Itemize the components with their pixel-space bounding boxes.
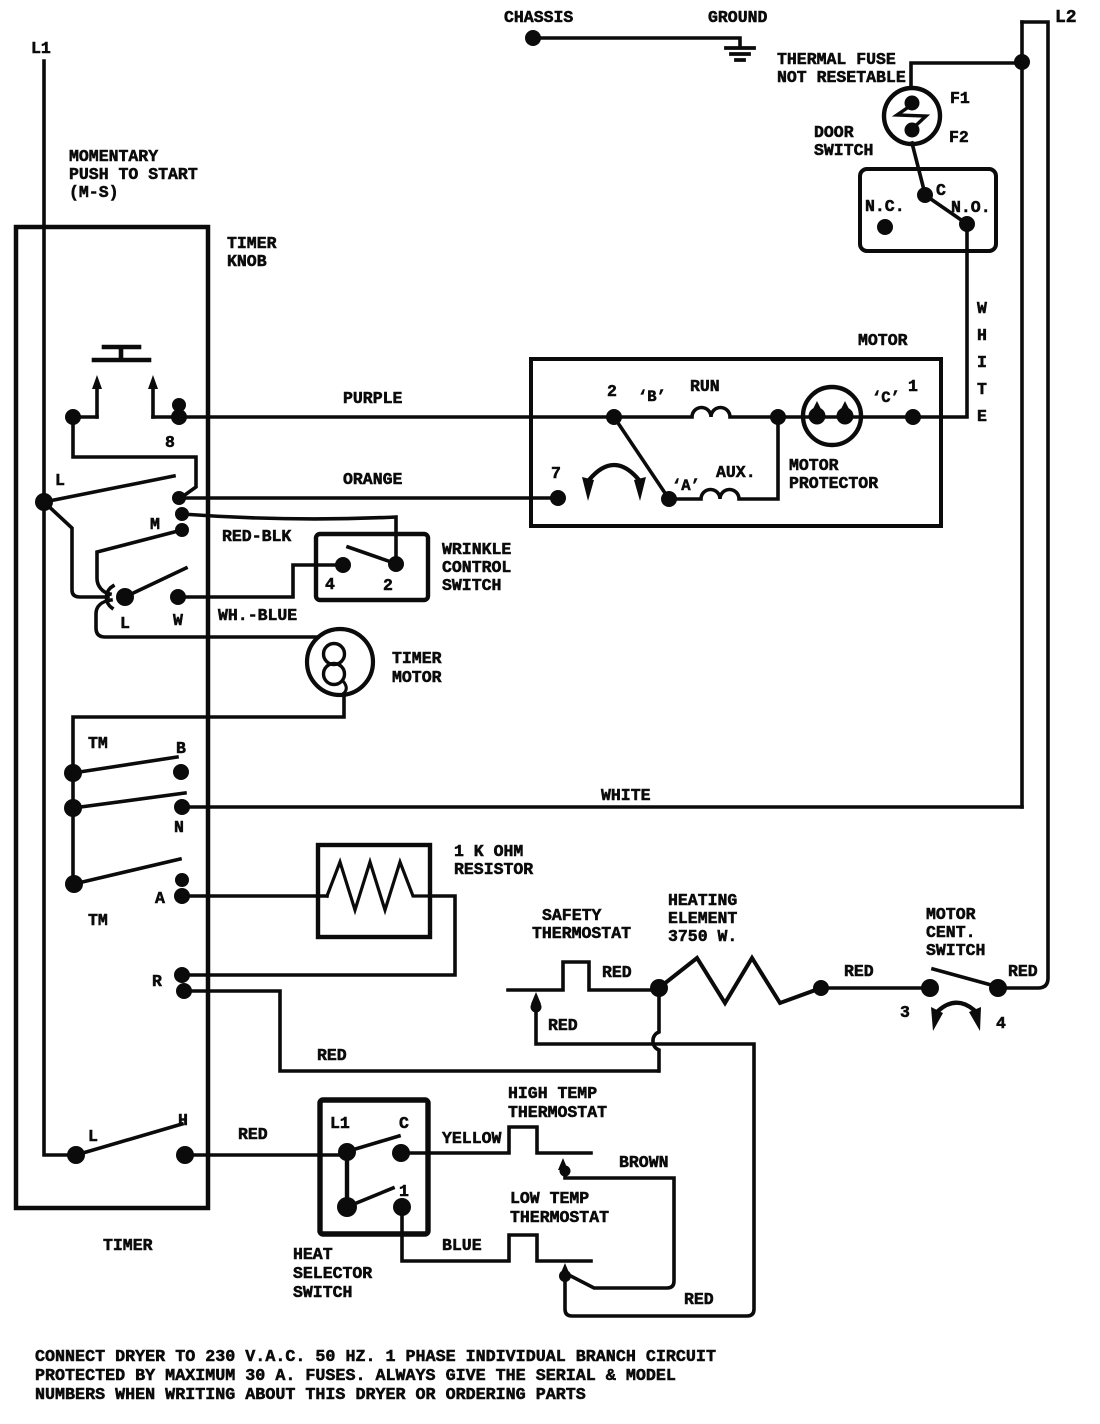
svg-text:NUMBERS WHEN WRITING ABOUT THI: NUMBERS WHEN WRITING ABOUT THIS DRYER OR…: [35, 1386, 586, 1405]
svg-text:TIMER: TIMER: [392, 649, 442, 668]
svg-text:MOTOR: MOTOR: [858, 331, 908, 350]
svg-text:CONNECT DRYER TO 230 V.A.C. 50: CONNECT DRYER TO 230 V.A.C. 50 HZ. 1 PHA…: [35, 1348, 716, 1367]
TM arm to B: [73, 757, 177, 773]
contact R dots: [174, 967, 190, 983]
push-to-start button: [94, 347, 149, 360]
resistor element: [327, 862, 430, 910]
contact A dots: [175, 873, 189, 887]
svg-text:‘A’: ‘A’: [672, 477, 700, 495]
net BROWN wire: [565, 1172, 674, 1288]
svg-text:SWITCH: SWITCH: [293, 1283, 352, 1302]
svg-text:MOTOR: MOTOR: [392, 668, 442, 687]
TM lower dot: [65, 875, 83, 893]
wire L1 vertical: [44, 61, 67, 1155]
heat selector arm upper: [352, 1136, 399, 1150]
svg-text:L: L: [55, 471, 65, 490]
cent switch pin 4 dot: [989, 979, 1007, 997]
svg-text:2: 2: [383, 576, 393, 595]
TM arm to N: [73, 793, 185, 808]
svg-text:L: L: [120, 614, 130, 633]
net RED wire timer to heat selector: [185, 1153, 348, 1157]
wire left contact to arrow: [73, 415, 97, 419]
heat selector lower left dot: [337, 1197, 357, 1217]
wire L junction to lower contact seat: [44, 502, 113, 608]
svg-text:3: 3: [900, 1003, 910, 1022]
caution note text: [35, 1348, 716, 1405]
contact B dot: [173, 764, 189, 780]
svg-text:THERMOSTAT: THERMOSTAT: [508, 1103, 607, 1122]
TM mid dot: [64, 799, 82, 817]
svg-text:RED: RED: [602, 963, 632, 982]
net PURPLE wire: [179, 415, 614, 419]
timer contact dots at orange/red-blk/M: [172, 491, 186, 505]
door switch N.C. dot: [877, 219, 893, 235]
svg-text:W: W: [977, 299, 987, 318]
thermal fuse element: [897, 104, 926, 130]
svg-text:TIMER: TIMER: [103, 1236, 153, 1255]
svg-text:DOOR: DOOR: [814, 123, 854, 142]
svg-text:AUX.: AUX.: [716, 463, 756, 482]
svg-text:CONTROL: CONTROL: [442, 558, 511, 577]
wrinkle control switch box: [316, 534, 428, 600]
wire protector to pin 1: [778, 415, 913, 419]
svg-text:PURPLE: PURPLE: [343, 389, 403, 408]
timer motor coil: [324, 644, 345, 665]
motor protector body: [803, 387, 861, 445]
net WHITE wire: [182, 805, 1022, 809]
net RED-BLK wire: [182, 514, 396, 564]
svg-text:L1: L1: [330, 1114, 350, 1133]
svg-text:L1: L1: [31, 39, 51, 58]
svg-text:WHITE: WHITE: [601, 786, 651, 805]
wire L2 vertical: [998, 22, 1048, 988]
svg-text:RUN: RUN: [690, 377, 720, 396]
heat selector C dot: [392, 1144, 410, 1162]
svg-text:ORANGE: ORANGE: [343, 470, 403, 489]
push-to-start contact arrows: [97, 386, 153, 417]
svg-text:THERMOSTAT: THERMOSTAT: [532, 924, 631, 943]
svg-text:RED: RED: [1008, 962, 1038, 981]
terminal 8 dots: [172, 398, 186, 412]
svg-text:E: E: [977, 407, 987, 426]
svg-text:T: T: [977, 380, 987, 399]
motor pin 7 dot: [550, 490, 566, 506]
motor pin 1 dot: [905, 409, 921, 425]
cent switch arm: [933, 969, 995, 986]
heat selector switch box: [320, 1100, 428, 1234]
svg-text:CHASSIS: CHASSIS: [504, 8, 573, 27]
svg-text:N.C.: N.C.: [865, 197, 905, 216]
svg-text:RED: RED: [548, 1016, 578, 1035]
timer switch arm L: [44, 476, 174, 502]
svg-text:SWITCH: SWITCH: [926, 941, 985, 960]
svg-text:2: 2: [607, 382, 617, 401]
svg-text:R: R: [152, 972, 162, 991]
heat selector pin 1 dot: [393, 1198, 411, 1216]
svg-text:F1: F1: [950, 89, 970, 108]
motor protector contacts: [813, 401, 849, 409]
svg-text:B: B: [176, 739, 186, 758]
net RED wire element to switch: [821, 986, 930, 990]
svg-text:L: L: [88, 1127, 98, 1146]
low-temp thermostat arm: [560, 1263, 570, 1275]
svg-text:RED: RED: [317, 1046, 347, 1065]
door switch N.O. dot: [959, 216, 975, 232]
door switch arm C to N.O.: [925, 195, 967, 224]
svg-text:(M-S): (M-S): [69, 183, 119, 202]
pin F2 dot: [905, 123, 920, 138]
wire N.O. down to motor pin 1: [913, 224, 967, 417]
svg-text:BROWN: BROWN: [619, 1153, 669, 1172]
svg-text:H: H: [178, 1111, 188, 1130]
heat selector arm lower: [354, 1188, 393, 1204]
net YELLOW wire with hi-temp fixed contact: [402, 1127, 591, 1153]
wire fuse F2 to door switch C: [912, 143, 925, 194]
timer M arm: [97, 530, 182, 594]
svg-text:SWITCH: SWITCH: [814, 141, 873, 160]
junction dot run/aux: [770, 409, 786, 425]
svg-text:H: H: [977, 326, 987, 345]
svg-text:MOMENTARY: MOMENTARY: [69, 147, 158, 166]
TM upper dot: [64, 764, 82, 782]
chassis terminal dot: [525, 30, 541, 46]
TM arm to A: [74, 859, 180, 884]
motor rotation arrow: [589, 465, 639, 480]
svg-text:W: W: [173, 611, 183, 630]
svg-text:RED: RED: [844, 962, 874, 981]
svg-text:‘B’: ‘B’: [638, 388, 666, 406]
cent switch pin 3 dot: [921, 979, 939, 997]
junction dot L on L1: [35, 493, 53, 511]
svg-text:PUSH TO START: PUSH TO START: [69, 165, 198, 184]
ground symbol: [726, 48, 754, 60]
svg-text:A: A: [155, 889, 165, 908]
svg-text:GROUND: GROUND: [708, 8, 768, 27]
wire thermal fuse to L2: [911, 63, 1022, 88]
svg-text:HEAT: HEAT: [293, 1245, 333, 1264]
wire A to resistor: [182, 894, 327, 898]
svg-text:PROTECTED BY MAXIMUM 30 A. FUS: PROTECTED BY MAXIMUM 30 A. FUSES. ALWAYS…: [35, 1367, 676, 1386]
svg-text:HIGH TEMP: HIGH TEMP: [508, 1084, 597, 1103]
motor run winding coil: [614, 408, 778, 418]
door switch C dot: [917, 187, 933, 203]
wrinkle switch pin 4 dot: [335, 557, 351, 573]
heating element: [659, 958, 821, 1003]
svg-text:4: 4: [996, 1014, 1006, 1033]
svg-text:ELEMENT: ELEMENT: [668, 909, 737, 928]
net RED wire from R: [184, 991, 658, 1071]
net ORANGE wire: [179, 496, 558, 500]
svg-text:MOTOR: MOTOR: [789, 456, 839, 475]
timer box: [16, 227, 208, 1208]
svg-text:I: I: [977, 353, 987, 372]
svg-text:YELLOW: YELLOW: [442, 1129, 502, 1148]
svg-text:L2: L2: [1055, 8, 1077, 28]
wire junction down with hop: [653, 988, 659, 1071]
svg-text:SAFETY: SAFETY: [542, 906, 602, 925]
wrinkle switch pin 2 dot: [388, 556, 404, 572]
svg-text:RESISTOR: RESISTOR: [454, 860, 533, 879]
heat selector internal wire: [345, 1152, 349, 1207]
svg-text:HEATING: HEATING: [668, 891, 737, 910]
timer lower switch W dot: [170, 589, 186, 605]
safety thermostat fixed contact: [508, 962, 659, 990]
svg-text:LOW TEMP: LOW TEMP: [510, 1189, 589, 1208]
svg-text:CENT.: CENT.: [926, 923, 976, 942]
contact H dot: [176, 1146, 194, 1164]
svg-text:C: C: [399, 1114, 409, 1133]
safety thermostat moving arm: [536, 1002, 754, 1316]
svg-text:F2: F2: [949, 128, 969, 147]
hi-temp thermostat arm: [558, 1158, 568, 1170]
wire timer motor to TM contacts: [73, 694, 344, 773]
motor box: [531, 359, 941, 526]
svg-text:C: C: [936, 181, 946, 200]
wire TM chain: [71, 773, 75, 884]
svg-text:KNOB: KNOB: [227, 252, 267, 271]
svg-text:M: M: [150, 515, 160, 534]
wire chassis to ground: [533, 38, 740, 47]
wrinkle switch arm: [348, 547, 394, 563]
svg-text:3750 W.: 3750 W.: [668, 927, 737, 946]
svg-text:N: N: [174, 818, 184, 837]
svg-text:WRINKLE: WRINKLE: [442, 540, 511, 559]
net BLUE wire with low-temp fixed contact: [402, 1207, 591, 1261]
arm L to H: [76, 1124, 182, 1155]
svg-text:4: 4: [325, 575, 335, 594]
svg-text:RED: RED: [684, 1290, 714, 1309]
svg-text:THERMAL FUSE: THERMAL FUSE: [777, 50, 896, 69]
svg-text:1 K OHM: 1 K OHM: [454, 842, 523, 861]
push-to-start left contact dot: [65, 409, 81, 425]
svg-text:NOT RESETABLE: NOT RESETABLE: [777, 68, 906, 87]
motor switch arm 2 to A: [614, 417, 669, 499]
thermal fuse body: [884, 88, 940, 144]
net WH.-BLUE wire: [178, 565, 336, 597]
svg-text:BLUE: BLUE: [442, 1236, 482, 1255]
svg-text:MOTOR: MOTOR: [926, 905, 976, 924]
svg-text:8: 8: [165, 433, 175, 452]
wire left contact to M contacts: [73, 417, 196, 497]
heat selector L1 dot: [338, 1143, 356, 1161]
svg-text:RED: RED: [238, 1125, 268, 1144]
svg-text:1: 1: [908, 377, 918, 396]
resistor box: [318, 845, 430, 937]
pin F1 dot: [905, 96, 920, 111]
svg-text:SWITCH: SWITCH: [442, 576, 501, 595]
motor pin 2 dot: [606, 409, 622, 425]
svg-text:TM: TM: [88, 734, 108, 753]
svg-text:RED-BLK: RED-BLK: [222, 527, 291, 546]
net WHITE vertical label: [977, 299, 987, 426]
wire lower switch to timer motor: [96, 600, 318, 637]
wire white bus vertical and to N: [1020, 22, 1024, 807]
heating element junction dot: [650, 979, 668, 997]
svg-text:WH.-BLUE: WH.-BLUE: [218, 606, 297, 625]
cent switch rotation arrow: [938, 1003, 974, 1011]
timer lower L-H switch: [67, 1146, 85, 1164]
timer lower switch arm: [125, 568, 186, 597]
door switch box: [860, 169, 996, 251]
timer motor body: [307, 629, 373, 695]
wire right arrow to terminal 8: [153, 415, 179, 419]
svg-text:TIMER: TIMER: [227, 234, 277, 253]
wire resistor to R: [184, 896, 455, 975]
svg-text:‘C’: ‘C’: [872, 389, 900, 407]
svg-text:7: 7: [551, 464, 561, 483]
motor aux winding coil: [669, 417, 778, 499]
heating element right dot: [813, 980, 829, 996]
junction dot L2/fuse: [1014, 54, 1030, 70]
svg-text:SELECTOR: SELECTOR: [293, 1264, 372, 1283]
contact N dot: [174, 799, 190, 815]
motor pin A dot: [661, 491, 677, 507]
svg-text:TM: TM: [88, 911, 108, 930]
timer lower switch L dot: [116, 588, 134, 606]
svg-text:N.O.: N.O.: [951, 198, 991, 217]
svg-text:THERMOSTAT: THERMOSTAT: [510, 1208, 609, 1227]
svg-text:PROTECTOR: PROTECTOR: [789, 474, 878, 493]
